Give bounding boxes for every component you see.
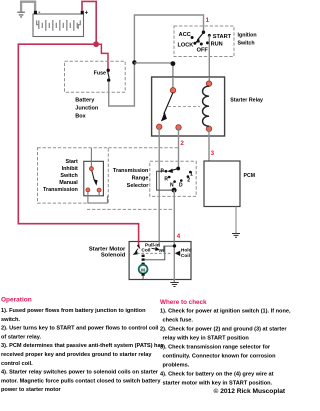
svg-text:control coil.: control coil. bbox=[1, 361, 33, 367]
pull-in coil bbox=[160, 250, 164, 252]
svg-text:Box: Box bbox=[75, 113, 86, 119]
TRS selector arrow to P bbox=[172, 169, 179, 171]
svg-text:Hold: Hold bbox=[181, 248, 192, 254]
transmission range selector box (dashed) bbox=[150, 161, 196, 196]
start inhibit switch box (dashed) bbox=[38, 148, 109, 203]
svg-text:© 2012 Rick Muscoplat: © 2012 Rick Muscoplat bbox=[214, 387, 286, 395]
PCM box bbox=[204, 161, 240, 207]
svg-text:2: 2 bbox=[187, 178, 190, 184]
svg-text:continuity. Connector known fo: continuity. Connector known for corrosio… bbox=[163, 354, 277, 360]
svg-text:Transmission: Transmission bbox=[113, 168, 149, 174]
svg-text:Solenoid: Solenoid bbox=[101, 253, 126, 259]
wire junction to relay switch bbox=[134, 63, 173, 89]
battery terminal negative bbox=[34, 11, 37, 14]
start inhibit switch contact top bbox=[89, 167, 93, 171]
svg-text:M: M bbox=[141, 267, 145, 272]
relay coil bbox=[203, 86, 209, 126]
battery junction box (dashed) bbox=[65, 61, 126, 92]
svg-text:3). Check transmission range s: 3). Check transmission range selector fo… bbox=[160, 345, 271, 351]
svg-text:RUN: RUN bbox=[211, 42, 223, 48]
wire TRS to solenoid ground run bbox=[173, 190, 175, 282]
battery cells bbox=[37, 20, 81, 31]
wire through solenoid to ground bbox=[173, 242, 175, 283]
relay terminal (bottom right) bbox=[206, 126, 211, 131]
linkage start inhibit switch to TRS (dashed, bottom) bbox=[87, 208, 174, 210]
wire red feed to starter solenoid (left run) bbox=[18, 44, 138, 247]
wire relay output to solenoid bbox=[158, 127, 160, 247]
svg-text:OFF: OFF bbox=[197, 48, 209, 54]
svg-text:1). Fused power flows from bat: 1). Fused power flows from battery junct… bbox=[1, 308, 146, 314]
operation text bbox=[1, 308, 164, 393]
battery terminal positive bbox=[81, 11, 84, 14]
svg-text:START: START bbox=[213, 34, 232, 40]
solenoid moving contact arrow bbox=[136, 249, 139, 252]
ignition switch contacts bbox=[177, 31, 231, 54]
starter relay box bbox=[152, 77, 225, 136]
svg-text:Ignition: Ignition bbox=[238, 33, 257, 39]
ground (starter solenoid) bbox=[170, 283, 178, 287]
wire START to relay coil bbox=[208, 35, 210, 83]
svg-text:Where to check: Where to check bbox=[160, 299, 207, 306]
linkage start inhibit switch to TRS (dashed, top) bbox=[108, 147, 179, 149]
svg-text:relay with key in START positi: relay with key in START position bbox=[163, 336, 250, 342]
svg-text:Manual: Manual bbox=[59, 180, 78, 186]
wire relay coil to PCM bbox=[208, 129, 210, 161]
start inhibit switch contact bottom right bbox=[97, 188, 101, 192]
svg-text:+: + bbox=[85, 10, 89, 16]
solenoid feed contact arrow bbox=[137, 244, 141, 249]
svg-text:4). Starter relay switches pow: 4). Starter relay switches power to sole… bbox=[1, 370, 159, 376]
wire motor to case bbox=[142, 276, 144, 280]
node battery feed junction bbox=[93, 41, 99, 47]
ground (battery negative) bbox=[17, 12, 25, 17]
motor contacts bbox=[142, 255, 145, 257]
relay terminal (switch top) bbox=[170, 88, 175, 93]
where to check text bbox=[160, 309, 291, 387]
svg-text:R: R bbox=[164, 177, 168, 183]
svg-text:Start: Start bbox=[66, 159, 78, 165]
start inhibit switch inner box bbox=[84, 161, 104, 196]
svg-text:-: - bbox=[38, 10, 40, 16]
svg-text:PCM: PCM bbox=[244, 173, 256, 179]
wire stub into relay (switch) bbox=[172, 77, 174, 89]
hold coil arrow bbox=[175, 251, 180, 256]
relay terminal (bottom mid) bbox=[176, 125, 181, 130]
svg-text:1). Check for power at ignitio: 1). Check for power at ignition switch (… bbox=[160, 309, 291, 315]
svg-text:problems.: problems. bbox=[163, 363, 190, 369]
wire stub into relay (coil) bbox=[208, 77, 210, 83]
svg-text:1: 1 bbox=[190, 171, 193, 177]
svg-text:Transmission: Transmission bbox=[43, 187, 78, 193]
wire battery positive (red) to junction bbox=[82, 1, 96, 43]
wire battery negative to ground bbox=[21, 2, 35, 12]
wire stub into solenoid (red feed) bbox=[138, 242, 140, 248]
svg-text:Switch: Switch bbox=[60, 173, 77, 179]
ignition switch box (dashed) bbox=[174, 26, 234, 57]
svg-text:Starter Motor: Starter Motor bbox=[89, 246, 126, 252]
TRS wire P to output bbox=[157, 171, 175, 190]
relay terminal (bottom left) bbox=[157, 124, 162, 129]
wire pull-in coil loop bbox=[144, 246, 174, 260]
svg-text:power to starter motor: power to starter motor bbox=[1, 387, 61, 393]
svg-text:4). Check for battery on the (: 4). Check for battery on the (4) grey wi… bbox=[160, 372, 274, 378]
wire PCM to ground bbox=[235, 207, 237, 234]
svg-text:1: 1 bbox=[206, 17, 210, 24]
svg-text:Battery: Battery bbox=[75, 97, 95, 103]
TRS position contacts bbox=[165, 170, 192, 183]
svg-text:switch.: switch. bbox=[1, 317, 20, 323]
svg-text:Starter Relay: Starter Relay bbox=[230, 97, 263, 103]
node junction at battery junction box output bbox=[132, 60, 136, 64]
svg-text:4: 4 bbox=[177, 233, 181, 240]
svg-text:LOCK: LOCK bbox=[177, 42, 193, 48]
ground (PCM) bbox=[232, 234, 240, 238]
wire relay control to TRS bbox=[178, 127, 180, 168]
relay linkage (dashed) bbox=[168, 105, 200, 107]
svg-text:3: 3 bbox=[211, 150, 215, 157]
svg-text:Inhibit: Inhibit bbox=[62, 166, 78, 172]
svg-text:of starter relay.: of starter relay. bbox=[1, 334, 41, 340]
svg-text:Switch: Switch bbox=[238, 41, 255, 47]
start inhibit switch wire in bbox=[90, 148, 92, 167]
svg-text:Coil: Coil bbox=[141, 247, 150, 253]
svg-text:N: N bbox=[170, 182, 174, 188]
svg-text:ACC: ACC bbox=[179, 32, 191, 38]
svg-text:received proper key and provid: received proper key and provides ground … bbox=[1, 352, 152, 358]
svg-text:2). User turns key to START an: 2). User turns key to START and power fl… bbox=[1, 326, 159, 332]
start inhibit switch contact bottom left bbox=[86, 188, 90, 192]
start inhibit switch arm bbox=[92, 171, 94, 180]
pull-in coil pointer arrow bbox=[152, 248, 157, 249]
TRS output node bbox=[172, 188, 177, 193]
fuse F1 bbox=[94, 69, 111, 82]
svg-text:starter motor with key in STAR: starter motor with key in START position… bbox=[163, 381, 273, 387]
svg-text:Junction: Junction bbox=[75, 105, 99, 111]
battery B1 bbox=[33, 14, 84, 37]
svg-text:3). PCM determines that passiv: 3). PCM determines that passive anti-the… bbox=[1, 343, 164, 349]
relay terminal (coil top) bbox=[206, 81, 211, 86]
svg-text:2). Check for power (2) and gr: 2). Check for power (2) and ground (3) a… bbox=[160, 327, 287, 333]
svg-text:Range: Range bbox=[132, 175, 149, 181]
node relay feed junction bbox=[171, 61, 176, 66]
starter motor solenoid box bbox=[129, 242, 191, 280]
relay switch arm with arrow bbox=[164, 93, 173, 115]
wire fuse to ignition switch feed bbox=[109, 15, 204, 106]
start inhibit switch wire out bbox=[88, 192, 108, 203]
svg-text:Selector: Selector bbox=[127, 183, 150, 189]
svg-text:check fuse.: check fuse. bbox=[163, 318, 194, 324]
solenoid linkage (dashed) bbox=[137, 252, 172, 254]
node hold coil junction bbox=[173, 244, 176, 247]
svg-text:2: 2 bbox=[180, 140, 184, 147]
svg-text:Operation: Operation bbox=[1, 297, 32, 304]
svg-text:Coil: Coil bbox=[181, 253, 190, 259]
TRS entry node bbox=[176, 167, 180, 171]
motor M1 bbox=[142, 263, 145, 266]
wire stub into solenoid (relay output) bbox=[158, 242, 160, 247]
TRS position labels bbox=[160, 168, 193, 188]
svg-text:motor. Magnetic force pulls co: motor. Magnetic force pulls contact clos… bbox=[1, 378, 161, 384]
svg-text:Fuse: Fuse bbox=[94, 70, 106, 76]
svg-text:D: D bbox=[179, 182, 183, 188]
wire red junction to fuse bbox=[96, 44, 108, 69]
